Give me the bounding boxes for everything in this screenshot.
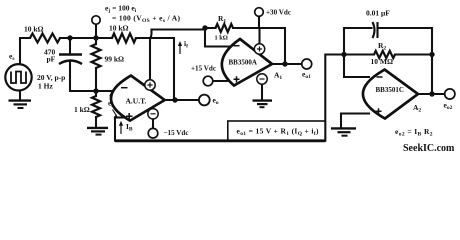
wire input node to AUT minus <box>96 90 114 92</box>
node top 99k <box>93 35 98 40</box>
AUT plus input glyph <box>126 113 133 119</box>
terminal e_o2 <box>445 89 455 99</box>
svg-text:A.U.T.: A.U.T. <box>126 97 147 106</box>
wire node to 99k top <box>95 38 97 44</box>
arrow i_f <box>178 41 182 54</box>
wire R2 right <box>395 53 432 55</box>
node R1 left <box>202 25 207 30</box>
wire e_j terminal stem <box>95 24 97 38</box>
wire 99k bottom to input node <box>95 68 97 91</box>
resistor R1 1k <box>216 24 234 32</box>
source V1 square-wave generator <box>5 64 31 90</box>
wire cap top stem <box>69 38 71 55</box>
svg-text:99 kΩ: 99 kΩ <box>105 55 125 64</box>
ground 1k <box>87 128 108 135</box>
A1 minus input glyph <box>234 45 240 47</box>
wire input node to 1k top <box>95 91 97 96</box>
svg-text:+30 Vdc: +30 Vdc <box>266 9 291 17</box>
formula box <box>228 121 325 141</box>
wire AUT output to e_o terminal <box>165 99 200 101</box>
wire A2 plus input to ground <box>341 114 369 129</box>
svg-text:pF: pF <box>47 55 56 64</box>
svg-text:0.01 μF: 0.01 μF <box>366 9 390 18</box>
wire cap C2 right loop <box>378 28 433 55</box>
svg-text:1 kΩ: 1 kΩ <box>215 35 228 42</box>
wire A1 minus-supply stem to ground <box>261 85 263 101</box>
supply pin plus A1 <box>254 44 264 54</box>
arrow I_B <box>119 121 123 134</box>
wire 1k bottom to ground <box>95 117 97 128</box>
wire AUT supply riser <box>150 30 205 80</box>
resistor R2 10M <box>374 51 395 58</box>
wire AUT plus input <box>115 116 127 118</box>
wire feedback vertical to AUT output <box>173 38 175 100</box>
wire node to R1 <box>205 27 216 29</box>
node R2 right <box>429 52 434 57</box>
terminal +30Vdc <box>255 8 264 17</box>
svg-text:10 kΩ: 10 kΩ <box>109 24 129 33</box>
svg-text:10 kΩ: 10 kΩ <box>24 25 44 34</box>
AUT minus input glyph <box>121 87 128 89</box>
op-amp U2 BB3501C <box>363 70 418 119</box>
supply pin minus A1 <box>257 74 267 84</box>
resistor 10k second <box>112 34 136 43</box>
svg-text:ej = 100 ei: ej = 100 ei <box>105 4 137 15</box>
node summing <box>341 52 346 57</box>
op-amp A.U.T. <box>111 76 165 121</box>
A1 plus input glyph <box>234 76 240 82</box>
svg-text:10 MΩ: 10 MΩ <box>371 57 393 66</box>
svg-text:SeekIC.com: SeekIC.com <box>403 143 455 154</box>
arrow e_i upper <box>109 92 113 98</box>
svg-text:BB3500A: BB3500A <box>229 59 257 67</box>
wire A1 output to e_o1 terminal <box>272 63 302 65</box>
supply pin minus AUT <box>148 109 158 119</box>
resistor 10k first <box>30 34 60 43</box>
terminal -15Vdc <box>148 128 158 138</box>
svg-text:1 Hz: 1 Hz <box>38 82 53 91</box>
node input <box>93 88 98 93</box>
capacitor 0.01uF <box>373 22 378 38</box>
wire minus supply stem <box>152 119 154 128</box>
svg-text:−15 Vdc: −15 Vdc <box>164 129 189 137</box>
wire cap bottom to input node <box>70 61 96 92</box>
terminal e_o <box>199 95 210 106</box>
terminal +15Vdc <box>203 76 213 86</box>
wire A1 plus-supply stem <box>258 28 260 44</box>
ground A2 <box>331 128 356 135</box>
wire after 10k2 to feedback corner <box>136 37 174 39</box>
wire A2 output to e_o2 terminal <box>418 93 445 95</box>
capacitor 470pF <box>59 55 82 65</box>
wire source to top rail <box>20 38 30 64</box>
node A1 output <box>282 61 287 66</box>
arrow e_i lower <box>113 110 119 119</box>
wire +30V stem <box>258 16 260 28</box>
terminal e_j <box>92 16 100 24</box>
wire R1 node down to A1 minus input <box>205 30 231 47</box>
resistor 1k vertical <box>92 96 100 117</box>
svg-text:+15 Vdc: +15 Vdc <box>191 64 216 72</box>
node top cap <box>67 35 72 40</box>
supply pin plus AUT <box>145 80 155 90</box>
wire bus riser to integrator input <box>325 55 344 141</box>
wire R2 node down to A2 output <box>431 55 433 95</box>
ground A1 <box>253 101 273 108</box>
wire R2 left <box>344 53 374 55</box>
wire bottom bus <box>115 139 325 142</box>
ground source <box>9 101 32 108</box>
svg-text:eo1 = 15 V + R1 (IQ + if): eo1 = 15 V + R1 (IQ + if) <box>237 126 320 137</box>
A2 minus input glyph <box>377 76 383 78</box>
wire cap C2 left loop <box>344 28 372 55</box>
node AUT output <box>172 97 177 102</box>
resistor 99k vertical <box>92 44 101 68</box>
wire bias vertical to bus <box>114 118 116 141</box>
A2 plus input glyph <box>376 108 382 114</box>
wire source bottom to ground <box>19 91 21 101</box>
svg-text:1 kΩ: 1 kΩ <box>74 105 90 114</box>
wire top rail mid <box>60 37 112 39</box>
wire R1 to corner and down to A1 output <box>233 28 285 64</box>
svg-text:BB3501C: BB3501C <box>376 86 404 94</box>
op-amp U1 BB3500A <box>222 39 272 86</box>
terminal e_o1 <box>302 59 312 69</box>
node A2 output <box>429 91 434 96</box>
wire summing node to A2 minus <box>344 55 369 78</box>
wire +15V terminal to A1 plus input <box>213 80 229 82</box>
